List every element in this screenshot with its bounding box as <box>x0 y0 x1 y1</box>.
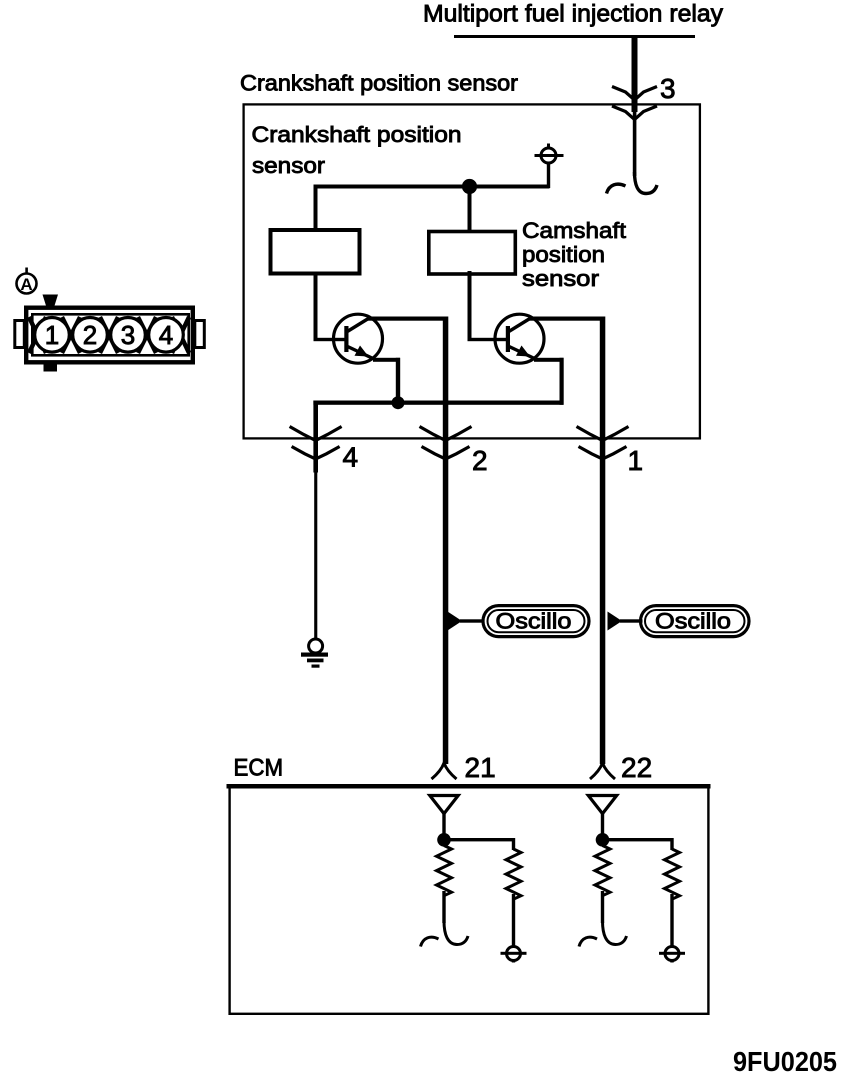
oscillo tag 1 arrow <box>448 612 463 631</box>
connector view A: bottom tab <box>44 364 58 372</box>
oscillo tag 1 stadium <box>483 606 589 637</box>
connector fork pin 21 <box>432 763 457 779</box>
wire: below pin 3 <box>633 112 637 176</box>
junction dot 22 <box>596 833 610 847</box>
resistor R4 (right of 22) <box>665 849 680 899</box>
svg-text:sensor: sensor <box>252 153 325 178</box>
wire below R1 <box>442 891 445 923</box>
wire: relay bus line <box>454 35 695 38</box>
transistor Q1 <box>334 314 383 363</box>
input terminal triangle 22 <box>588 796 616 814</box>
wire: relay feed vertical <box>632 37 638 112</box>
wire: Q2 emitter to bottom bus <box>534 358 564 362</box>
wire below R3 <box>601 891 604 923</box>
oscillo tag 2 lead <box>620 619 643 622</box>
connector view A: hatch fills <box>29 317 189 353</box>
wire: bus down to left pickup coil <box>314 187 318 229</box>
pickup coil box (camshaft) <box>429 232 516 275</box>
pickup coil box (crankshaft) <box>271 230 360 274</box>
wire below R4 <box>670 894 673 946</box>
oscillo tag 2 stadium <box>641 606 750 637</box>
wire: triangle 21 to node <box>442 813 445 835</box>
wire: triangle 22 to node <box>601 813 604 835</box>
resistor R2 (right of 21) <box>506 849 521 899</box>
transistor Q2 <box>495 314 544 363</box>
hook: wire continuation curl under pin 3 <box>607 172 658 194</box>
oscillo tag 1 lead <box>460 619 483 622</box>
svg-text:9FU0205: 9FU0205 <box>733 1046 837 1077</box>
svg-text:position: position <box>522 242 605 267</box>
connector view A: top tab <box>43 295 59 306</box>
svg-text:Crankshaft position: Crankshaft position <box>252 122 462 147</box>
wire: right coil to Q2 base <box>468 271 472 341</box>
svg-text:ECM: ECM <box>234 755 284 782</box>
wire: node 21 to right resistor <box>444 838 514 841</box>
connector pin 3 chevron lower <box>612 106 657 120</box>
svg-text:A: A <box>20 275 32 294</box>
wire: node 22 to right resistor <box>603 838 673 841</box>
shield terminal (circle-cross) top <box>535 144 564 189</box>
svg-text:2: 2 <box>83 320 97 350</box>
svg-text:Oscillo: Oscillo <box>496 609 572 634</box>
connector fork pin 22 <box>590 763 615 779</box>
connector pin 4 chevrons <box>290 427 342 441</box>
svg-text:Multiport fuel injection relay: Multiport fuel injection relay <box>423 1 723 28</box>
input terminal triangle 21 <box>430 796 458 814</box>
svg-text:4: 4 <box>159 320 173 350</box>
wire: Q1 collector to pin 2 <box>367 317 448 321</box>
resistor R3 (left of 22) <box>595 846 610 896</box>
svg-text:1: 1 <box>45 320 59 350</box>
svg-text:Oscillo: Oscillo <box>655 609 731 634</box>
box: crankshaft position sensor <box>244 104 700 438</box>
hook below R3 <box>579 921 627 947</box>
junction dot 21 <box>437 833 451 847</box>
wire below R2 <box>512 894 515 946</box>
connector view A: cavity 4 <box>149 318 184 353</box>
svg-text:Crankshaft position sensor: Crankshaft position sensor <box>240 71 518 96</box>
junction dot on supply bus <box>462 179 477 194</box>
connector view A: outer shell <box>26 308 193 363</box>
hook below R1 <box>421 921 469 947</box>
connector view A: cavity 2 <box>73 318 108 353</box>
svg-text:21: 21 <box>465 752 496 783</box>
shield terminal below R4 <box>659 947 685 963</box>
svg-text:4: 4 <box>343 442 359 473</box>
shield terminal below R2 <box>501 947 527 963</box>
connector view A: cavity 1 <box>35 318 70 353</box>
wire: junction down to right pickup coil <box>468 187 472 231</box>
box: ECM <box>230 786 709 1014</box>
resistor R1 (left of 21) <box>437 846 452 896</box>
svg-text:2: 2 <box>472 445 488 476</box>
wire: bottom bus <box>313 401 563 405</box>
wire: supply bus inside sensor <box>314 185 550 189</box>
connector view A: cavity 3 <box>111 318 146 353</box>
wire: Q1 emitter to bottom bus <box>373 358 400 362</box>
svg-text:3: 3 <box>121 320 135 350</box>
svg-text:1: 1 <box>628 445 644 476</box>
wire: left coil to Q1 base <box>314 274 318 341</box>
oscillo tag 2 arrow <box>608 612 623 631</box>
connector view A: circled A <box>17 268 37 295</box>
wire: Q2 collector to pin 1 <box>529 317 606 321</box>
junction dot on bottom bus <box>392 396 405 409</box>
svg-text:sensor: sensor <box>522 266 599 291</box>
connector pin 2 chevrons <box>420 427 472 441</box>
box: ECM thick top border <box>227 784 711 789</box>
ground symbol under pin 4 <box>301 639 328 668</box>
connector view A: inner shell <box>32 314 188 355</box>
svg-text:Camshaft: Camshaft <box>522 218 626 243</box>
connector view A: right tab <box>195 321 205 348</box>
svg-text:3: 3 <box>660 73 676 104</box>
svg-text:22: 22 <box>621 752 652 783</box>
wire: pin 4 drop to ground <box>313 401 318 473</box>
connector pin 1 chevrons <box>577 427 629 441</box>
connector view A: left tab <box>15 321 24 348</box>
connector pin 3 chevron upper <box>612 87 657 101</box>
